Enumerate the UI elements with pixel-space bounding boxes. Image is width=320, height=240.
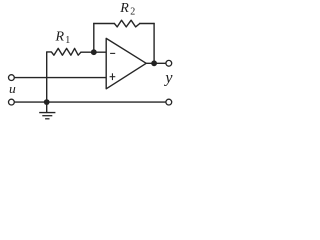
wire: bottom rail from u- terminal to lower right terminal (15, 101, 166, 103)
input terminal bottom (u-) (9, 99, 15, 105)
ground bar 1 (39, 112, 55, 114)
input terminal top (u+) (9, 75, 15, 81)
svg-text:2: 2 (130, 6, 135, 17)
svg-text:1: 1 (65, 35, 70, 46)
wire: R1 right lead to inverting node (81, 51, 94, 53)
wire: ground stem (46, 102, 48, 112)
wire: feedback top left lead (94, 23, 115, 25)
wire: vertical branch from R1 left lead down to bottom rail (46, 52, 48, 102)
wire: feedback left vertical (93, 24, 95, 53)
svg-text:u: u (9, 81, 16, 96)
svg-text:R: R (55, 30, 65, 45)
op-amp non-inverting input + sign (110, 76, 116, 78)
resistor R1 (47, 48, 81, 55)
node: inverting input junction dot (91, 49, 97, 55)
op-amp inverting input - sign (110, 52, 115, 54)
wire: top rail from u+ terminal to op-amp + input (15, 77, 106, 79)
wire: inverting node to op-amp - input (94, 51, 106, 53)
node: ground junction dot (44, 99, 50, 105)
ground bar 3 (45, 118, 49, 120)
wire: op-amp output to terminal y (146, 62, 165, 64)
ground bar 2 (42, 115, 52, 117)
output terminal (y) (166, 60, 172, 66)
svg-text:R: R (119, 1, 129, 16)
wire: feedback right vertical down to output node (153, 24, 155, 64)
op-amp U1 triangle (106, 38, 146, 88)
wire: feedback top right lead (140, 23, 154, 25)
svg-text:y: y (163, 69, 173, 86)
resistor R2 (114, 20, 139, 27)
lower right terminal (166, 99, 172, 105)
node: output junction dot (151, 60, 157, 66)
